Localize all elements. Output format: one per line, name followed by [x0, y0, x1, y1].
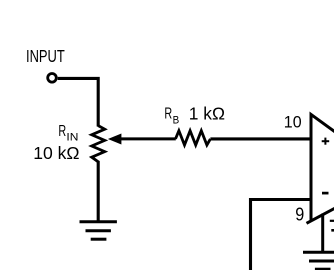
input terminal circle — [48, 74, 57, 83]
partial glyph dash (cut at right edge, upper) — [330, 220, 334, 222]
svg-text:R: R — [164, 106, 172, 123]
svg-text:1 kΩ: 1 kΩ — [189, 104, 225, 124]
svg-text:B: B — [173, 115, 180, 127]
partial glyph dash (cut at right edge, lower) — [331, 229, 334, 232]
svg-text:R: R — [58, 123, 66, 140]
wire: op-amp bottom to ground — [321, 214, 324, 252]
svg-text:IN: IN — [66, 132, 78, 144]
wire: potentiometer bottom to ground — [97, 161, 100, 222]
wire: wiper arrow to resistor RB — [120, 137, 176, 140]
svg-text:10: 10 — [284, 113, 302, 132]
op-amp plus input sign — [322, 138, 330, 145]
wiper arrow of potentiometer — [108, 134, 122, 145]
wire: input terminal right then down to potentiometer top — [58, 78, 98, 126]
ground (below op-amp, cut at right edge) — [303, 252, 334, 269]
resistor RB zigzag body — [176, 131, 211, 145]
potentiometer RIN zigzag body — [92, 126, 105, 162]
ground (below potentiometer) — [80, 222, 117, 240]
op-amp U1 (partially cut at right edge) — [307, 114, 334, 223]
svg-text:9: 9 — [295, 205, 304, 225]
svg-text:10 kΩ: 10 kΩ — [33, 143, 79, 163]
wire: inverting input feedback, left and down off bottom edge — [251, 200, 312, 270]
op-amp minus input sign — [322, 192, 329, 195]
svg-text:INPUT: INPUT — [26, 46, 65, 66]
wire: resistor RB to op-amp noninverting input — [210, 137, 311, 140]
